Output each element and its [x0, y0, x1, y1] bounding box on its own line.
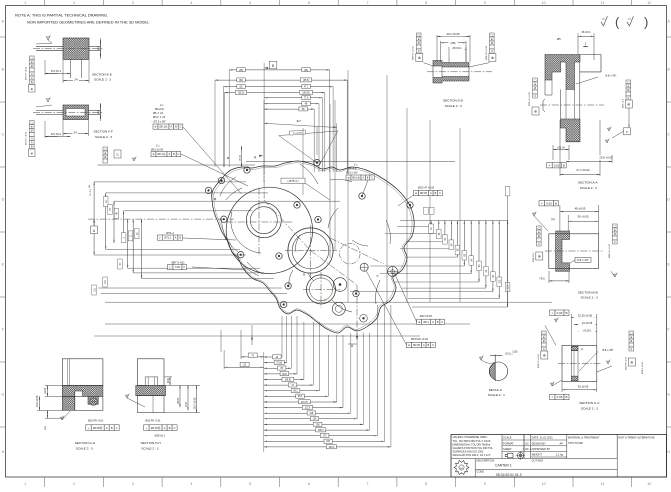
- svg-text:A: A: [164, 426, 166, 430]
- svg-text:◯: ◯: [627, 81, 630, 84]
- svg-text:Ø16 P6 -0.01: Ø16 P6 -0.01: [145, 419, 161, 423]
- svg-text:⊕: ⊕: [347, 177, 349, 180]
- svg-text:0.05: 0.05: [557, 395, 563, 399]
- svg-text:⊕: ⊕: [627, 85, 629, 88]
- svg-text:SURFACES DIN ISO 1302: SURFACES DIN ISO 1302: [453, 449, 484, 453]
- svg-text:C: C: [371, 177, 373, 180]
- svg-text:Ø0.1Ⓜ: Ø0.1Ⓜ: [158, 152, 166, 156]
- svg-text:24: 24: [74, 77, 78, 81]
- svg-text:⌖: ⌖: [549, 163, 551, 167]
- svg-text:0.02: 0.02: [554, 163, 560, 167]
- svg-text:Ø0.1Ⓜ: Ø0.1Ⓜ: [352, 176, 360, 180]
- svg-text:12: 12: [647, 482, 651, 486]
- svg-text:40.2 ±0.05: 40.2 ±0.05: [446, 32, 460, 36]
- svg-text:⊕: ⊕: [31, 126, 33, 129]
- svg-text:(38.05): (38.05): [302, 93, 310, 95]
- svg-text:( Ø75.4 ): ( Ø75.4 ): [287, 179, 298, 183]
- svg-text:Ø0.05: Ø0.05: [413, 344, 420, 347]
- svg-text:05.02.00.01.01.3: 05.02.00.01.01.3: [496, 473, 522, 477]
- svg-text:DIMENSIONAL TOL DIN TebEve: DIMENSIONAL TOL DIN TebEve: [453, 442, 491, 446]
- svg-text:Ø22 P6 -0.01: Ø22 P6 -0.01: [626, 356, 628, 370]
- svg-text:◯: ◯: [490, 34, 493, 37]
- svg-text:⊕: ⊕: [630, 336, 632, 339]
- svg-text:◯: ◯: [537, 227, 540, 230]
- svg-text:3: 3: [132, 482, 134, 486]
- svg-text:⊕: ⊕: [491, 56, 494, 60]
- svg-text:101.75: 101.75: [301, 402, 309, 404]
- svg-text:2.1 kg: 2.1 kg: [556, 453, 564, 457]
- svg-text:4: 4: [191, 482, 193, 486]
- svg-text:F: F: [668, 328, 670, 332]
- svg-text:SECTION A-A: SECTION A-A: [578, 180, 599, 184]
- svg-text:Ø87.5 H11: Ø87.5 H11: [171, 261, 185, 265]
- svg-text:6: 6: [308, 482, 310, 486]
- svg-text:NOTE A: THIS IS PARTIAL TECHNI: NOTE A: THIS IS PARTIAL TECHNICAL DRAWIN…: [15, 13, 108, 18]
- svg-text:Ø: Ø: [104, 156, 106, 159]
- svg-text:SCALE: SCALE: [503, 436, 512, 440]
- svg-text:Ø5: Ø5: [96, 110, 100, 114]
- svg-text:193.3: 193.3: [329, 447, 335, 449]
- svg-text:0.05: 0.05: [175, 266, 180, 269]
- svg-text:(2): (2): [551, 217, 554, 221]
- svg-text:8.8 x 45°: 8.8 x 45°: [602, 348, 613, 352]
- svg-text:SCALE 2 : 3: SCALE 2 : 3: [581, 407, 598, 411]
- svg-text:Ø: Ø: [31, 130, 33, 133]
- svg-text:M5+0.8: M5+0.8: [155, 107, 164, 111]
- svg-text:◯: ◯: [613, 225, 616, 228]
- svg-text:Ø5.5 x 90°: Ø5.5 x 90°: [346, 172, 358, 175]
- svg-text:◯: ◯: [104, 148, 107, 151]
- svg-text:8.8 x 45°: 8.8 x 45°: [577, 258, 590, 262]
- svg-text:C: C: [439, 192, 441, 195]
- svg-text:F: F: [2, 328, 4, 332]
- svg-text:◯: ◯: [542, 332, 545, 335]
- svg-text:⌖: ⌖: [551, 395, 553, 399]
- svg-text:SCALE 2 : 3: SCALE 2 : 3: [581, 296, 598, 300]
- svg-text:8: 8: [425, 1, 427, 5]
- svg-text:B: B: [169, 426, 171, 430]
- svg-text:⊕: ⊕: [418, 38, 420, 41]
- svg-text:32.29 ±0.05: 32.29 ±0.05: [578, 314, 593, 318]
- svg-text:SECTION F-F: SECTION F-F: [94, 130, 114, 134]
- svg-text:◯: ◯: [30, 122, 33, 125]
- svg-text:Ø71.2: Ø71.2: [166, 231, 174, 235]
- svg-text:47.1: 47.1: [304, 87, 309, 89]
- svg-text:12: 12: [647, 1, 651, 5]
- svg-text:SECTION G-G: SECTION G-G: [75, 441, 96, 445]
- svg-text:5: 5: [249, 1, 251, 5]
- svg-text:(5): (5): [240, 87, 243, 89]
- svg-text:⊕: ⊕: [543, 354, 546, 358]
- svg-text:TOL. ISO 8015 DIM TOL ± 7/100: TOL. ISO 8015 DIM TOL ± 7/100: [453, 439, 491, 443]
- svg-text:Ø36 H8 +0.04: Ø36 H8 +0.04: [486, 46, 488, 60]
- svg-text:28 ±0.1: 28 ±0.1: [452, 46, 462, 50]
- svg-text:SCALE 2 : 3: SCALE 2 : 3: [95, 135, 112, 139]
- svg-text:Ø12 ±0.05: Ø12 ±0.05: [420, 314, 433, 318]
- svg-text:(15): (15): [513, 350, 518, 354]
- svg-text:(9): (9): [89, 185, 91, 188]
- svg-text:FORMAT: FORMAT: [503, 442, 514, 446]
- svg-text:G: G: [1, 393, 4, 397]
- svg-text:⊕: ⊕: [538, 231, 540, 234]
- svg-text:⊕: ⊕: [418, 56, 421, 60]
- svg-text:Ø47 P7 +0.02: Ø47 P7 +0.02: [413, 46, 415, 60]
- svg-text:8.5 ±0.1: 8.5 ±0.1: [51, 132, 62, 136]
- svg-text:Ø: Ø: [630, 340, 632, 343]
- svg-text:8.8 x 45°: 8.8 x 45°: [605, 74, 616, 78]
- svg-text:(16): (16): [304, 70, 308, 72]
- svg-text:(59.8): (59.8): [285, 379, 291, 381]
- svg-text:Ø26.5 ±0.05: Ø26.5 ±0.05: [642, 361, 644, 374]
- svg-text:C: C: [180, 126, 182, 129]
- svg-text:76.5: 76.5: [539, 276, 545, 280]
- svg-text:24: 24: [73, 130, 77, 134]
- svg-text:( 8.29 ): ( 8.29 ): [583, 328, 592, 332]
- svg-text:27.85: 27.85: [276, 363, 282, 365]
- svg-text:Ø0.05Ⓜ: Ø0.05Ⓜ: [151, 426, 161, 430]
- svg-text:SCALE 2 : 3: SCALE 2 : 3: [76, 446, 93, 450]
- svg-text:ANGULAR POS DM 2: 1/2 ± 1/4°: ANGULAR POS DM 2: 1/2 ± 1/4°: [453, 453, 491, 457]
- svg-text:◯: ◯: [630, 332, 633, 335]
- svg-text:Ø47 ±0.1: Ø47 ±0.1: [623, 98, 625, 108]
- svg-text:Ø18 ±0.1: Ø18 ±0.1: [155, 434, 166, 438]
- svg-text:⌖: ⌖: [541, 201, 543, 205]
- svg-text:SHEET: SHEET: [503, 447, 512, 451]
- svg-text:⊕: ⊕: [104, 152, 106, 155]
- svg-text:10: 10: [542, 482, 546, 486]
- svg-text:1: 1: [24, 1, 26, 5]
- svg-text:⊕: ⊕: [30, 152, 33, 156]
- svg-text:48 ±0.05: 48 ±0.05: [575, 206, 586, 210]
- svg-text:C: C: [178, 153, 180, 156]
- svg-text:SECTION D-D: SECTION D-D: [443, 99, 464, 103]
- svg-text:APPROVED BY: APPROVED BY: [532, 447, 551, 451]
- svg-text:SCALE 2 : 3: SCALE 2 : 3: [141, 446, 158, 450]
- svg-text:B: B: [111, 426, 113, 430]
- svg-text:SCALE 2 : 3: SCALE 2 : 3: [94, 78, 111, 82]
- svg-text:Ø: Ø: [534, 87, 536, 90]
- svg-text:39.8: 39.8: [282, 374, 287, 376]
- svg-text:27.1 ±0.02: 27.1 ±0.02: [576, 168, 590, 172]
- svg-text:3: 3: [132, 1, 134, 5]
- svg-text:Ø16 H7 +0.02: Ø16 H7 +0.02: [538, 354, 540, 368]
- svg-text:Ø: Ø: [491, 42, 493, 45]
- svg-text:(11): (11): [44, 426, 47, 430]
- svg-text:⊕: ⊕: [630, 361, 633, 365]
- svg-text:⊕: ⊕: [31, 61, 33, 64]
- svg-text:SECTION E-E: SECTION E-E: [92, 73, 112, 77]
- svg-text:C: C: [174, 426, 176, 430]
- svg-text:A2: A2: [525, 442, 529, 446]
- svg-text:M5+0.8: M5+0.8: [348, 168, 357, 171]
- svg-text:(35.5): (35.5): [240, 155, 242, 161]
- svg-text:35 ±0.05: 35 ±0.05: [578, 385, 589, 389]
- svg-text:⌵ Ø7.5 x 90°: ⌵ Ø7.5 x 90°: [151, 120, 166, 124]
- svg-text:⊕: ⊕: [627, 103, 630, 107]
- svg-text:DESIGN BY: DESIGN BY: [532, 442, 546, 446]
- svg-text:(26.5): (26.5): [177, 398, 180, 404]
- svg-text:◯: ◯: [534, 79, 537, 82]
- svg-text:CODE: CODE: [477, 470, 485, 474]
- svg-text:B: B: [565, 395, 567, 399]
- svg-text:AP: AP: [560, 442, 564, 446]
- svg-text:WGT & TRMNT ALTERNATIVE: WGT & TRMNT ALTERNATIVE: [618, 436, 654, 440]
- svg-text:C: C: [441, 321, 443, 324]
- svg-text:SCALE 4 : 1: SCALE 4 : 1: [488, 393, 505, 397]
- svg-text:Ø71.2: Ø71.2: [164, 237, 171, 240]
- svg-text:Ø: Ø: [31, 65, 33, 68]
- svg-text:2: 2: [73, 1, 75, 5]
- svg-text:(: (: [615, 15, 620, 30]
- svg-text:SECTION H-H: SECTION H-H: [141, 441, 161, 445]
- svg-text:Ø: Ø: [543, 340, 545, 343]
- svg-text:24.8: 24.8: [185, 402, 188, 407]
- svg-text:77.6: 77.6: [304, 98, 309, 100]
- svg-text:Ø: Ø: [418, 42, 420, 45]
- svg-text:Ø40 H7 +0.03: Ø40 H7 +0.03: [609, 244, 611, 258]
- svg-text:165.3: 165.3: [318, 430, 324, 432]
- svg-text:32°: 32°: [297, 119, 302, 123]
- svg-text:⌖: ⌖: [551, 311, 553, 315]
- svg-text:Ø5 ↧ 24: Ø5 ↧ 24: [153, 111, 164, 115]
- svg-text:Ø 8 H7 +0.02: Ø 8 H7 +0.02: [26, 131, 28, 145]
- svg-text:11: 11: [601, 482, 605, 486]
- svg-text:(35.5): (35.5): [303, 80, 309, 82]
- svg-text:Ø5: Ø5: [96, 46, 100, 50]
- svg-text:8: 8: [425, 482, 427, 486]
- svg-text:(9.9): (9.9): [167, 378, 170, 383]
- svg-text:(45): (45): [239, 70, 243, 72]
- svg-text:⊕: ⊕: [534, 83, 536, 86]
- svg-text:8.5 ±0.1: 8.5 ±0.1: [51, 69, 62, 73]
- svg-text:11: 11: [601, 1, 605, 5]
- svg-text:Ø0.05: Ø0.05: [420, 192, 427, 195]
- svg-text:Ø10 ±0.05: Ø10 ±0.05: [151, 148, 164, 152]
- svg-text:⊕: ⊕: [491, 38, 493, 41]
- svg-text:Ø6.8 H8 +0.04: Ø6.8 H8 +0.04: [411, 337, 429, 341]
- svg-text:⊕: ⊕: [614, 229, 616, 232]
- svg-text:◯: ◯: [30, 57, 33, 60]
- svg-text:10: 10: [542, 1, 546, 5]
- svg-text:7075-T6-500: 7075-T6-500: [568, 441, 583, 445]
- svg-text:G: G: [667, 393, 670, 397]
- svg-text:Ø 8 H7 +0.02: Ø 8 H7 +0.02: [26, 66, 28, 80]
- svg-text:112.9: 112.9: [305, 408, 311, 410]
- svg-text:24 ±0.05: 24 ±0.05: [582, 321, 593, 325]
- svg-text:DESCRIPTION: DESCRIPTION: [477, 459, 495, 463]
- svg-text:Ø: Ø: [614, 233, 616, 236]
- svg-text:9: 9: [484, 482, 486, 486]
- svg-text:0.02: 0.02: [546, 201, 552, 205]
- svg-text:36 +0.05: 36 +0.05: [578, 215, 589, 219]
- svg-text:5: 5: [249, 482, 251, 486]
- svg-text:(38): (38): [451, 41, 456, 45]
- svg-text:B: B: [555, 201, 557, 205]
- svg-text:C: C: [432, 344, 434, 347]
- svg-text:2: 2: [73, 482, 75, 486]
- svg-text:CUT AGE: CUT AGE: [532, 458, 544, 462]
- svg-text:SCALE 2 : 3: SCALE 2 : 3: [445, 104, 462, 108]
- svg-text:SECTION B-B: SECTION B-B: [578, 290, 598, 294]
- svg-text:Ø10 P6 -0.01: Ø10 P6 -0.01: [88, 419, 104, 423]
- svg-text:DETAIL A: DETAIL A: [489, 388, 503, 392]
- svg-text:Ø4.2 ↧ 23: Ø4.2 ↧ 23: [153, 115, 166, 119]
- svg-text:0.02: 0.02: [557, 311, 563, 315]
- svg-text:): ): [644, 15, 648, 30]
- svg-text:9: 9: [484, 1, 486, 5]
- svg-text:C: C: [116, 426, 118, 430]
- svg-text:1 OF 1: 1 OF 1: [523, 447, 531, 451]
- svg-text:(19.9): (19.9): [44, 388, 47, 394]
- svg-text:7: 7: [367, 482, 369, 486]
- svg-text:(52): (52): [239, 80, 243, 82]
- svg-text:Ø: Ø: [627, 89, 629, 92]
- svg-text:85.2: 85.2: [293, 391, 298, 393]
- svg-text:SECTION C-C: SECTION C-C: [579, 401, 600, 405]
- svg-text:35.7 ±0.05: 35.7 ±0.05: [194, 397, 197, 409]
- svg-text:NON IMPORTED GEOMETRIES ARE DE: NON IMPORTED GEOMETRIES ARE DEFINED IN T…: [27, 20, 150, 25]
- svg-text:⊕: ⊕: [538, 255, 541, 259]
- svg-text:SG: SG: [460, 468, 463, 470]
- svg-text:WEIGHT: WEIGHT: [532, 453, 543, 457]
- svg-text:(31.4): (31.4): [557, 146, 564, 150]
- svg-text:MATERIAL & TREATMENT: MATERIAL & TREATMENT: [568, 436, 600, 440]
- svg-text:⊕: ⊕: [30, 87, 33, 91]
- svg-text:Ø20 H7 +0.02: Ø20 H7 +0.02: [418, 186, 435, 190]
- svg-text:-: -: [527, 437, 528, 440]
- svg-text:A: A: [581, 347, 583, 351]
- svg-text:Ø16.5 H7: Ø16.5 H7: [533, 252, 535, 262]
- svg-text:6: 6: [308, 1, 310, 5]
- svg-text:Ø5: Ø5: [557, 37, 561, 41]
- svg-text:UNLESS OTHERWISE SPEC:: UNLESS OTHERWISE SPEC:: [453, 435, 489, 439]
- svg-text:SCALE 2 : 3: SCALE 2 : 3: [580, 186, 597, 190]
- svg-text:⊕: ⊕: [534, 110, 537, 114]
- svg-text:Ø0.1: Ø0.1: [423, 321, 429, 324]
- svg-text:A: A: [106, 426, 108, 430]
- svg-text:CARTER 1: CARTER 1: [495, 464, 512, 468]
- svg-text:Ø: Ø: [538, 235, 540, 238]
- svg-text:Ø35 H7 +0.03: Ø35 H7 +0.03: [529, 92, 531, 106]
- svg-text:⊕: ⊕: [543, 336, 545, 339]
- svg-text:◯: ◯: [417, 34, 420, 37]
- svg-text:23.6 ±0.05: 23.6 ±0.05: [36, 395, 39, 407]
- svg-text:DATE: 31.01.2021: DATE: 31.01.2021: [532, 436, 554, 440]
- svg-text:96.5: 96.5: [298, 396, 303, 398]
- svg-text:4: 4: [191, 1, 193, 5]
- svg-text:70 -0.1: 70 -0.1: [90, 188, 92, 196]
- svg-text:F: F: [626, 130, 628, 134]
- svg-text:(69.2): (69.2): [238, 93, 244, 95]
- svg-text:23.8 +0.05: 23.8 +0.05: [599, 156, 613, 160]
- svg-text:36 ±0.1: 36 ±0.1: [581, 30, 591, 34]
- svg-text:CHAMFS POSITION TOL DIN TOL: CHAMFS POSITION TOL DIN TOL: [453, 446, 494, 450]
- svg-text:Ø0.05Ⓜ: Ø0.05Ⓜ: [93, 426, 103, 430]
- svg-text:7: 7: [367, 1, 369, 5]
- svg-text:1: 1: [24, 482, 26, 486]
- svg-text:Ø0.1Ⓜ: Ø0.1Ⓜ: [160, 125, 168, 129]
- svg-text:B: B: [565, 311, 567, 315]
- svg-text:B: B: [563, 163, 565, 167]
